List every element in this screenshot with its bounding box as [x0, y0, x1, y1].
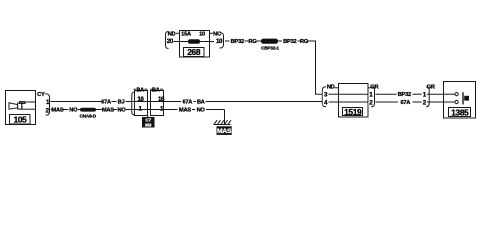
svg-text:15A: 15A: [181, 32, 191, 38]
svg-text:NO: NO: [197, 108, 206, 114]
svg-text:67A: 67A: [101, 100, 111, 106]
svg-text:ND: ND: [168, 31, 176, 37]
svg-text:BP32: BP32: [283, 39, 296, 45]
svg-text:16: 16: [137, 96, 144, 103]
svg-text:105: 105: [13, 114, 27, 124]
svg-text:1385: 1385: [451, 108, 469, 118]
svg-text:RG: RG: [300, 39, 309, 45]
svg-text:NO: NO: [69, 108, 78, 114]
svg-text:MAS: MAS: [217, 128, 232, 135]
svg-text:BA: BA: [136, 88, 144, 94]
svg-text:10: 10: [199, 32, 205, 38]
svg-text:GR: GR: [370, 84, 378, 90]
svg-text:CY: CY: [37, 92, 45, 98]
svg-text:20: 20: [167, 38, 174, 45]
svg-text:ND: ND: [327, 84, 335, 90]
svg-text:BA: BA: [152, 88, 160, 94]
svg-text:BA: BA: [197, 100, 205, 106]
svg-text:BJ: BJ: [118, 100, 125, 106]
svg-text:NC: NC: [213, 31, 221, 37]
svg-text:BP32: BP32: [231, 39, 244, 45]
svg-text:RG: RG: [248, 39, 257, 45]
svg-text:268: 268: [187, 47, 201, 57]
svg-text:10: 10: [216, 38, 223, 45]
svg-text:1519: 1519: [344, 107, 362, 117]
svg-text:MAS: MAS: [102, 108, 114, 114]
svg-text:MAS: MAS: [179, 108, 191, 114]
svg-text:M3: M3: [145, 122, 152, 127]
svg-text:GR: GR: [427, 84, 435, 90]
svg-text:MAS: MAS: [52, 108, 64, 114]
svg-text:CBP32-1: CBP32-1: [261, 45, 279, 50]
svg-text:BP32: BP32: [398, 92, 411, 98]
svg-text:67A: 67A: [182, 100, 192, 106]
svg-text:67A: 67A: [400, 100, 410, 106]
svg-text:NO: NO: [117, 108, 126, 114]
svg-text:16: 16: [158, 96, 165, 103]
svg-text:CNA8-D: CNA8-D: [80, 113, 97, 118]
